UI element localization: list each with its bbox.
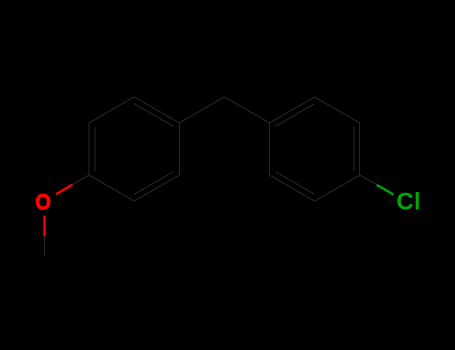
wire right ring inner double TL2-T2 (275, 104, 314, 127)
wire right ring edge BR2-B2 (315, 175, 360, 201)
wire left ring edge TL-T (89, 97, 134, 123)
wire bond C-Cl green half (377, 185, 394, 195)
wire left ring edge TR-BR (178, 123, 180, 175)
wire bond O-C1 carbon half (73, 175, 90, 185)
wire left ring edge BL-TL (88, 123, 90, 175)
svg-text:O: O (35, 189, 51, 214)
wire bridge bond TR-CH2 (179, 97, 224, 123)
atom label Cl (chlorine) (396, 188, 413, 215)
atom label O (methoxy oxygen) (35, 189, 51, 214)
wire right ring edge BL2-TL2 (269, 123, 271, 175)
wire bridge bond CH2-TL2 (224, 97, 269, 123)
wire left ring edge B-BL (89, 175, 134, 201)
wire right ring inner double B2-BL2 (275, 172, 314, 195)
svg-text:C: C (396, 188, 413, 215)
wire bond O-C1 red half (oxygen to ring) (56, 185, 72, 195)
wire right ring edge TL2-T2 (270, 97, 315, 123)
wire left ring inner double TL-BL (94, 126, 96, 171)
wire bond O-CH3 red half (43, 216, 45, 237)
wire left ring edge T-TR (134, 97, 179, 123)
wire right ring inner double TR2-BR2 (353, 126, 355, 171)
wire left ring inner double T-TR (134, 104, 173, 127)
svg-text:l: l (414, 188, 420, 215)
wire left ring inner double B-BR (134, 172, 173, 195)
wire bond C-Cl carbon half (360, 175, 377, 185)
wire right ring edge B2-BL2 (270, 175, 315, 201)
wire bond O-CH3 carbon half (44, 236, 46, 256)
wire right ring edge TR2-BR2 (359, 123, 361, 175)
wire right ring edge T2-TR2 (315, 97, 360, 123)
wire left ring edge BR-B (134, 175, 179, 201)
